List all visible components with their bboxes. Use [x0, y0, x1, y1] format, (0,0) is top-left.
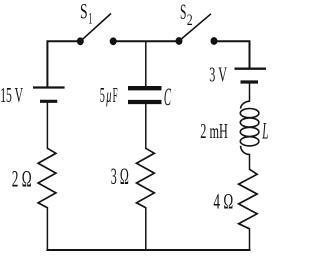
wire top-right (S2 right contact to right corner, down to battery 3V) [214, 41, 250, 68]
resistor R1 2-ohm zigzag [38, 148, 56, 208]
battery V2 3V (long plate + short thick plate) [235, 69, 267, 82]
inductor L (4-loop coil) [240, 101, 259, 154]
wire middle-top (top rail node to capacitor C) [145, 41, 147, 86]
wire left-bottom (R1 to bottom rail) [46, 208, 48, 250]
svg-text:2 Ω: 2 Ω [12, 166, 32, 191]
wire right (inductor L to resistor R3) [249, 155, 251, 170]
svg-text:2 mH: 2 mH [200, 119, 228, 143]
svg-text:3 V: 3 V [209, 63, 227, 87]
switch S1 [77, 14, 117, 46]
wire bottom rail [47, 249, 249, 251]
wire middle (capacitor C to resistor R2) [145, 104, 147, 149]
wire middle-bottom (R2 to bottom rail) [145, 208, 147, 250]
svg-text:15 V: 15 V [0, 83, 23, 107]
svg-text:S: S [80, 0, 88, 24]
value label "5 uF" [100, 83, 118, 107]
wire top-middle (S1 right contact to S2 left contact, node with C branch) [113, 40, 179, 42]
svg-text:4 Ω: 4 Ω [213, 188, 233, 213]
label S2 [180, 0, 193, 29]
svg-text:μ: μ [106, 83, 112, 107]
label S1 [80, 0, 92, 28]
svg-text:C: C [164, 84, 171, 111]
svg-text:1: 1 [88, 11, 92, 28]
svg-text:F: F [113, 83, 118, 107]
wire top-left (left corner to S1 left contact) [47, 41, 80, 87]
switch S2 [176, 14, 218, 45]
capacitor C (two thick plates) [128, 88, 162, 102]
svg-text:3 Ω: 3 Ω [111, 164, 129, 189]
svg-text:2: 2 [187, 12, 193, 29]
svg-text:L: L [262, 118, 269, 143]
svg-text:5: 5 [100, 83, 105, 107]
wire left-middle (battery 15V minus to resistor R1) [46, 102, 48, 149]
resistor R2 3-ohm zigzag [137, 148, 155, 208]
wire right-bottom (R3 to bottom rail) [249, 229, 251, 250]
battery V1 15V (long plate + short thick plate) [33, 88, 65, 102]
resistor R3 4-ohm zigzag [239, 169, 258, 229]
wire right (battery 3V minus to inductor L) [249, 83, 251, 101]
svg-text:S: S [180, 0, 186, 24]
